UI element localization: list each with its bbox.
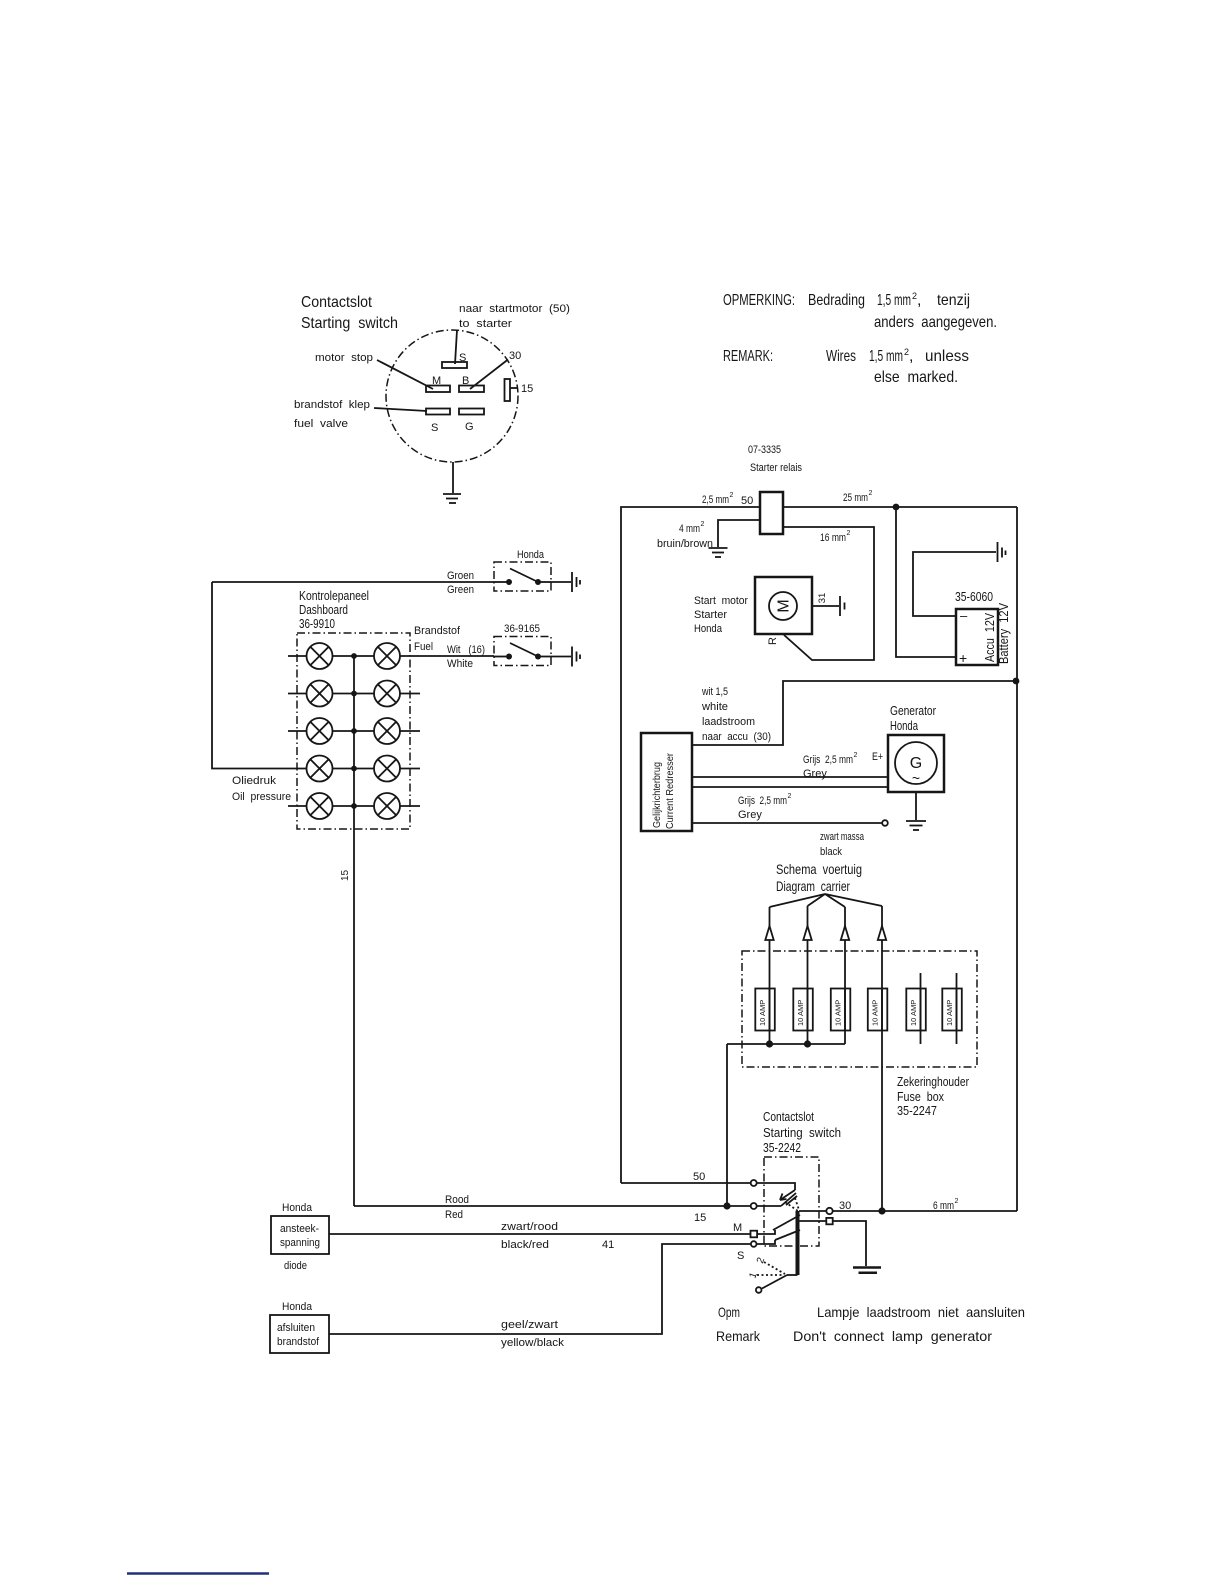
switch position labels 1 2 (rotated) bbox=[747, 1256, 767, 1280]
svg-text:Grey: Grey bbox=[738, 809, 762, 821]
terminal 15 bbox=[505, 379, 534, 401]
svg-text:G: G bbox=[465, 421, 474, 433]
svg-text:naar accu (30): naar accu (30) bbox=[702, 731, 771, 743]
svg-text:tenzij: tenzij bbox=[937, 292, 970, 309]
fuel shutoff box Honda bbox=[270, 1301, 329, 1353]
svg-text:Kontrolepaneel: Kontrolepaneel bbox=[299, 588, 369, 603]
svg-text:,: , bbox=[909, 348, 913, 365]
starting switch detail label bbox=[301, 294, 398, 332]
wire motor to ground bbox=[812, 605, 839, 607]
svg-text:35-6060: 35-6060 bbox=[955, 589, 993, 604]
fuse F4 10 AMP bbox=[868, 989, 888, 1031]
svg-text:M: M bbox=[733, 1222, 742, 1234]
wire battery plus to junction bbox=[896, 507, 956, 657]
svg-text:geel/zwart: geel/zwart bbox=[501, 1319, 558, 1331]
svg-text:diode: diode bbox=[284, 1260, 307, 1272]
ground (generator) bbox=[906, 821, 926, 830]
svg-text:25 mm: 25 mm bbox=[843, 492, 868, 504]
lamp row 2 right bbox=[374, 681, 420, 707]
start motor box bbox=[755, 577, 812, 634]
svg-text:Start motor: Start motor bbox=[694, 595, 748, 607]
green switch box bbox=[494, 562, 551, 591]
wire fuel switch to ground bbox=[551, 656, 571, 658]
label geel/zwart yellow/black bbox=[501, 1319, 565, 1349]
arrow line 3 bbox=[841, 907, 849, 1044]
svg-text:White: White bbox=[447, 658, 473, 670]
lamp row 1 right (fuel) bbox=[374, 643, 494, 669]
svg-text:zwart massa: zwart massa bbox=[820, 831, 865, 843]
svg-text:Lampje laadstroom niet aans: Lampje laadstroom niet aansluiten bbox=[817, 1304, 1025, 1320]
wire fuse bus down to 15 wire bbox=[726, 1044, 728, 1206]
svg-text:2: 2 bbox=[730, 492, 734, 499]
svg-text:Groen: Groen bbox=[447, 570, 474, 582]
arrow line 4 (to terminal 30) bbox=[878, 906, 886, 1211]
svg-text:Wit (16): Wit (16) bbox=[447, 644, 485, 656]
label Schema voertuig Diagram carrier bbox=[776, 861, 862, 894]
label brandstof klep / fuel valve bbox=[294, 399, 370, 430]
junction fuse line 4 / 30 wire bbox=[878, 1207, 885, 1214]
svg-text:10 AMP: 10 AMP bbox=[758, 1000, 767, 1026]
label Oliedruk Oil pressure bbox=[232, 775, 291, 803]
svg-text:S: S bbox=[431, 422, 438, 434]
svg-text:Starting switch: Starting switch bbox=[301, 315, 398, 332]
svg-text:Current Redresser: Current Redresser bbox=[664, 753, 676, 829]
lamp row 4 left (oil pressure) bbox=[307, 756, 375, 782]
svg-text:10 AMP: 10 AMP bbox=[834, 1000, 843, 1026]
wire fuse bus bottom bbox=[727, 1043, 845, 1045]
svg-text:OPMERKING:: OPMERKING: bbox=[723, 292, 795, 309]
svg-text:else marked.: else marked. bbox=[874, 369, 958, 386]
svg-text:unless: unless bbox=[925, 348, 969, 365]
svg-text:Schema voertuig: Schema voertuig bbox=[776, 861, 862, 877]
label Zekeringhouder Fuse box 35-2247 bbox=[897, 1074, 970, 1118]
svg-text:Red: Red bbox=[445, 1209, 463, 1221]
leader line motor stop bbox=[377, 360, 433, 389]
svg-text:2: 2 bbox=[869, 490, 873, 497]
dotted position lines bbox=[757, 1262, 785, 1275]
contact finger S bbox=[757, 1230, 801, 1244]
svg-text:10 AMP: 10 AMP bbox=[945, 1000, 954, 1026]
svg-text:Contactslot: Contactslot bbox=[763, 1109, 814, 1124]
label wit 1,5 white laadstroom naar accu (30) bbox=[701, 686, 771, 743]
terminal S bottom bbox=[426, 409, 450, 435]
svg-text:Diagram carrier: Diagram carrier bbox=[776, 878, 850, 894]
fuse F2 10 AMP bbox=[793, 989, 813, 1031]
wire right main vertical bbox=[1016, 507, 1018, 1211]
wire 50 from left vertical bbox=[621, 1182, 751, 1184]
fuse F3 10 AMP bbox=[831, 989, 851, 1031]
diode box Honda bbox=[271, 1202, 329, 1272]
svg-text:Grijs 2,5 mm: Grijs 2,5 mm bbox=[803, 754, 853, 766]
generator Honda bbox=[888, 735, 944, 792]
fuse F1 10 AMP bbox=[755, 989, 775, 1031]
svg-text:motor stop: motor stop bbox=[315, 352, 373, 364]
svg-text:15: 15 bbox=[521, 383, 533, 395]
terminal 30 bbox=[826, 1208, 832, 1214]
label Brandstof Fuel bbox=[414, 625, 461, 653]
svg-text:Opm: Opm bbox=[718, 1304, 740, 1320]
wire oil pressure branch bbox=[212, 582, 307, 769]
terminal 50 bbox=[751, 1180, 757, 1186]
wires grey to generator bbox=[692, 777, 888, 787]
svg-text:–: – bbox=[960, 608, 968, 623]
svg-text:REMARK:: REMARK: bbox=[723, 348, 773, 365]
ground (green switch, sideways) bbox=[572, 572, 580, 592]
label 4 mm2 bruin/brown bbox=[657, 521, 713, 550]
svg-text:2: 2 bbox=[788, 793, 792, 800]
lamp row 5 right bbox=[374, 793, 420, 819]
label Groen Green bbox=[447, 570, 474, 596]
terminal M bbox=[426, 375, 450, 392]
svg-text:Honda: Honda bbox=[282, 1202, 313, 1214]
terminal S bbox=[751, 1241, 757, 1247]
footer line bbox=[127, 1572, 269, 1575]
svg-text:S: S bbox=[459, 352, 466, 364]
wire laadstroom rectifier to accu line bbox=[692, 681, 1017, 745]
junction fuse 1 bbox=[766, 1040, 773, 1047]
svg-text:Battery 12V: Battery 12V bbox=[996, 603, 1011, 664]
svg-text:Starter relais: Starter relais bbox=[750, 462, 802, 474]
rectifier (current redresser) bbox=[641, 733, 692, 831]
svg-text:spanning: spanning bbox=[280, 1237, 320, 1249]
dashboard common line bbox=[353, 656, 355, 1206]
junction row 2 bbox=[351, 691, 357, 697]
fuse box outline 35-2247 bbox=[742, 951, 977, 1067]
fuse F6 10 AMP (spare) bbox=[942, 973, 962, 1044]
ground (switch) bbox=[853, 1268, 881, 1273]
svg-text:Green: Green bbox=[447, 584, 474, 596]
svg-text:10 AMP: 10 AMP bbox=[909, 1000, 918, 1026]
leader line brandstof klep bbox=[374, 408, 427, 411]
svg-text:Grey: Grey bbox=[803, 768, 827, 780]
junction row 3 bbox=[351, 728, 357, 734]
fuse F5 10 AMP (spare) bbox=[906, 973, 926, 1044]
svg-text:brandstof: brandstof bbox=[277, 1336, 320, 1348]
svg-text:50: 50 bbox=[693, 1171, 705, 1183]
svg-text:2: 2 bbox=[701, 521, 705, 528]
svg-text:2,5 mm: 2,5 mm bbox=[702, 494, 729, 506]
remark Opm Lampje bbox=[716, 1304, 1025, 1344]
svg-text:anders aangegeven.: anders aangegeven. bbox=[874, 314, 997, 331]
svg-text:36-9910: 36-9910 bbox=[299, 616, 335, 631]
starting switch detail circle bbox=[386, 330, 518, 462]
svg-text:35-2242: 35-2242 bbox=[763, 1140, 801, 1155]
svg-text:M: M bbox=[776, 599, 793, 612]
contact finger M bbox=[758, 1215, 800, 1234]
label Generator Honda bbox=[890, 703, 937, 733]
wire 15 from dashboard bbox=[354, 1205, 751, 1207]
wire switch output 30 bbox=[799, 1210, 826, 1212]
junction row 1 bbox=[351, 653, 357, 659]
arrow line 1 bbox=[765, 907, 773, 1044]
svg-text:6 mm: 6 mm bbox=[933, 1200, 954, 1212]
svg-text:Oliedruk: Oliedruk bbox=[232, 775, 277, 787]
terminal 15 bbox=[751, 1203, 757, 1209]
arrow line 2 bbox=[803, 906, 811, 1044]
wire left main vertical to relay bbox=[621, 507, 760, 1183]
switch common bar bbox=[796, 1211, 800, 1275]
svg-text:Oil pressure: Oil pressure bbox=[232, 791, 291, 803]
label zwart massa black bbox=[820, 831, 865, 858]
svg-text:,: , bbox=[917, 292, 921, 309]
starter relay 07-3335 bbox=[748, 444, 802, 534]
svg-text:50: 50 bbox=[741, 495, 753, 507]
lamp row 1 left bbox=[288, 643, 374, 669]
fuel switch box 36-9165 bbox=[494, 637, 551, 666]
wire battery minus to ground bbox=[913, 552, 996, 616]
label Kontrolepaneel Dashboard 36-9910 bbox=[299, 588, 369, 631]
ground (switch detail) bbox=[443, 462, 461, 503]
svg-text:Fuse box: Fuse box bbox=[897, 1089, 944, 1104]
svg-text:laadstroom: laadstroom bbox=[702, 716, 755, 728]
open terminal massa bbox=[882, 820, 888, 826]
svg-text:Contactslot: Contactslot bbox=[301, 294, 372, 311]
svg-text:black/red: black/red bbox=[501, 1239, 549, 1251]
svg-text:1,5 mm: 1,5 mm bbox=[877, 292, 911, 309]
svg-text:E+: E+ bbox=[872, 751, 883, 763]
wire 4 mm2 brown to ground bbox=[718, 520, 760, 547]
svg-text:15: 15 bbox=[694, 1212, 706, 1224]
terminal S top bbox=[442, 352, 467, 368]
svg-text:ansteek-: ansteek- bbox=[280, 1223, 319, 1235]
svg-text:white: white bbox=[701, 701, 728, 713]
leader line naar startmotor bbox=[455, 330, 457, 364]
svg-text:36-9165: 36-9165 bbox=[504, 623, 540, 635]
lamp row 2 left bbox=[288, 681, 374, 707]
svg-text:2: 2 bbox=[955, 1198, 959, 1205]
svg-text:Honda: Honda bbox=[694, 623, 723, 635]
svg-text:afsluiten: afsluiten bbox=[277, 1322, 315, 1334]
svg-text:Starter: Starter bbox=[694, 609, 727, 621]
wire switch aux output to ground bbox=[799, 1218, 866, 1266]
ground (brown wire) bbox=[709, 548, 728, 557]
svg-text:41: 41 bbox=[602, 1239, 614, 1251]
label Contactslot Starting switch 35-2242 bbox=[763, 1109, 841, 1155]
dotted link to pivot bbox=[785, 1198, 799, 1211]
svg-text:Remark: Remark bbox=[716, 1328, 761, 1344]
svg-text:Brandstof: Brandstof bbox=[414, 625, 461, 637]
terminal G bbox=[459, 409, 484, 434]
svg-text:~: ~ bbox=[912, 770, 920, 786]
svg-text:Dashboard: Dashboard bbox=[299, 602, 348, 617]
svg-text:Starting switch: Starting switch bbox=[763, 1125, 841, 1140]
svg-text:2: 2 bbox=[854, 752, 858, 759]
junction fuse feed / 15 wire bbox=[723, 1202, 730, 1209]
wire black massa bbox=[692, 822, 882, 824]
lamp row 4 right bbox=[374, 756, 420, 782]
ground (fuel switch, sideways) bbox=[572, 647, 580, 667]
svg-text:+: + bbox=[959, 650, 967, 666]
svg-text:10 AMP: 10 AMP bbox=[871, 1000, 880, 1026]
label Grijs 2,5 mm2 Grey (lower) bbox=[738, 793, 792, 821]
fan lines to carrier bbox=[770, 894, 883, 907]
svg-text:wit 1,5: wit 1,5 bbox=[701, 686, 728, 698]
wire generator to ground bbox=[915, 792, 917, 820]
svg-text:Wires: Wires bbox=[826, 348, 856, 365]
wire 16 mm2 relay to start motor bbox=[783, 527, 874, 660]
wire M from diode bbox=[329, 1233, 751, 1235]
junction row 4 bbox=[351, 766, 357, 772]
svg-text:1,5 mm: 1,5 mm bbox=[869, 348, 903, 365]
svg-text:M: M bbox=[432, 375, 441, 387]
svg-text:black: black bbox=[820, 846, 842, 858]
svg-text:Don't connect lamp generato: Don't connect lamp generator bbox=[793, 1328, 992, 1344]
label Grijs 2,5 mm2 Grey (upper) bbox=[803, 752, 858, 780]
svg-text:Rood: Rood bbox=[445, 1194, 469, 1206]
label Start motor Starter Honda bbox=[694, 595, 748, 635]
svg-text:Gelijkrichterbrug: Gelijkrichterbrug bbox=[651, 762, 663, 828]
wire 30 to right vertical (6 mm2) bbox=[833, 1210, 1017, 1212]
svg-text:B: B bbox=[462, 375, 469, 387]
label Rood Red bbox=[445, 1194, 469, 1221]
svg-text:35-2247: 35-2247 bbox=[897, 1103, 937, 1118]
svg-text:Fuel: Fuel bbox=[414, 641, 433, 653]
wire relay to right vertical (25 mm2) bbox=[783, 506, 1017, 508]
svg-text:31: 31 bbox=[817, 593, 828, 604]
svg-text:10 AMP: 10 AMP bbox=[796, 1000, 805, 1026]
svg-text:naar startmotor (50): naar startmotor (50) bbox=[459, 303, 570, 315]
svg-text:brandstof klep: brandstof klep bbox=[294, 399, 370, 411]
battery 35-6060 bbox=[955, 589, 1011, 666]
leader line 30 bbox=[470, 360, 508, 390]
svg-text:4 mm: 4 mm bbox=[679, 523, 700, 535]
lamp row 3 left bbox=[288, 718, 374, 744]
label 2,5 mm2 and 50 bbox=[702, 492, 753, 507]
label zwart/rood black/red bbox=[501, 1221, 558, 1251]
svg-text:yellow/black: yellow/black bbox=[501, 1337, 565, 1349]
svg-text:07-3335: 07-3335 bbox=[748, 444, 781, 456]
svg-text:16 mm: 16 mm bbox=[820, 532, 846, 544]
svg-text:2: 2 bbox=[847, 530, 851, 537]
junction row 5 bbox=[351, 803, 357, 809]
svg-text:bruin/brown: bruin/brown bbox=[657, 538, 713, 550]
dashboard outline 36-9910 bbox=[297, 633, 410, 829]
remark text OPMERKING bbox=[723, 291, 997, 331]
contact finger 15 bbox=[757, 1193, 796, 1206]
junction laadstroom / right vertical bbox=[1013, 678, 1020, 685]
contact finger 50 bbox=[757, 1183, 797, 1205]
wire S from fuel shutoff bbox=[329, 1244, 751, 1334]
svg-text:Honda: Honda bbox=[890, 718, 919, 733]
starting switch 35-2242 outline bbox=[764, 1157, 819, 1246]
svg-text:30: 30 bbox=[509, 350, 521, 362]
remark text REMARK bbox=[723, 347, 969, 386]
lamp row 5 left bbox=[288, 793, 374, 819]
svg-text:zwart/rood: zwart/rood bbox=[501, 1221, 558, 1233]
wire green switch to ground bbox=[551, 581, 571, 583]
ground (battery, sideways) bbox=[998, 542, 1006, 562]
junction fuse 2 bbox=[804, 1040, 811, 1047]
wire green lamp to switch bbox=[212, 581, 494, 583]
svg-text:fuel valve: fuel valve bbox=[294, 418, 348, 430]
terminal B bbox=[459, 375, 484, 392]
ground (motor, sideways) bbox=[840, 596, 845, 616]
off contact lever bbox=[756, 1275, 798, 1293]
terminal M bbox=[751, 1231, 758, 1238]
svg-text:Honda: Honda bbox=[517, 549, 545, 561]
svg-text:Grijs 2,5 mm: Grijs 2,5 mm bbox=[738, 795, 787, 807]
svg-text:Bedrading: Bedrading bbox=[808, 292, 865, 309]
svg-text:to starter: to starter bbox=[459, 318, 512, 330]
svg-text:S: S bbox=[737, 1250, 744, 1262]
svg-text:15: 15 bbox=[340, 869, 351, 881]
svg-text:R: R bbox=[767, 637, 779, 645]
svg-text:Zekeringhouder: Zekeringhouder bbox=[897, 1074, 970, 1089]
svg-text:Generator: Generator bbox=[890, 703, 937, 718]
junction battery plus / relay bbox=[893, 504, 900, 511]
label Wit (16) White bbox=[447, 644, 485, 670]
lamp row 3 right bbox=[374, 718, 420, 744]
svg-text:Honda: Honda bbox=[282, 1301, 313, 1313]
svg-text:Accu 12V: Accu 12V bbox=[982, 613, 997, 662]
label naar startmotor (50) bbox=[459, 303, 570, 330]
